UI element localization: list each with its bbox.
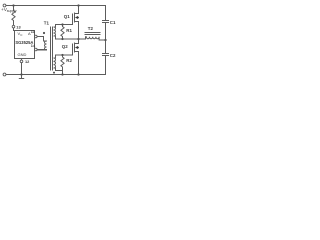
svg-text:C1: C1 [110, 20, 116, 25]
svg-text:T1: T1 [44, 20, 50, 25]
svg-text:supply: supply [7, 9, 17, 13]
svg-text:12: 12 [25, 59, 30, 64]
svg-text:SG3525A: SG3525A [15, 40, 33, 45]
svg-text:GND: GND [18, 52, 27, 57]
svg-text:A: A [28, 31, 31, 36]
svg-text:T2: T2 [88, 26, 94, 31]
svg-text:Q2: Q2 [62, 44, 68, 49]
svg-text:R2: R2 [66, 58, 72, 63]
svg-text:C2: C2 [110, 53, 116, 58]
svg-text:R1: R1 [66, 28, 72, 33]
svg-text:13: 13 [16, 24, 21, 29]
svg-text:C: C [20, 33, 23, 37]
svg-text:11: 11 [31, 29, 36, 34]
svg-text:Q1: Q1 [64, 14, 70, 19]
